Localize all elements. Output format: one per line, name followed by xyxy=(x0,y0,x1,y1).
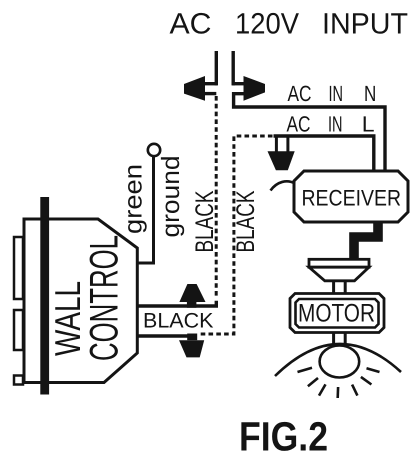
svg-text:120V: 120V xyxy=(235,8,299,41)
antenna wire xyxy=(271,181,296,190)
wall (thick bar) xyxy=(40,197,49,395)
wall control box xyxy=(24,219,137,383)
canopy trapezoid xyxy=(309,267,369,281)
svg-text:N: N xyxy=(364,81,376,106)
thick wire receiver to canopy xyxy=(354,221,378,260)
svg-text:RECEIVER: RECEIVER xyxy=(302,186,402,211)
light ray 4 xyxy=(336,387,339,398)
light bulb xyxy=(320,346,360,378)
dashed wire BLACK (right, from AC IN L down) xyxy=(198,136,273,334)
motor box inner xyxy=(296,299,379,328)
svg-text:AC: AC xyxy=(288,81,312,106)
light ray 7 xyxy=(367,368,380,372)
svg-text:IN: IN xyxy=(329,81,344,106)
motor box outer xyxy=(290,294,384,333)
ground terminal circle xyxy=(148,144,160,156)
stub arrow-left to dashed wire xyxy=(205,92,217,95)
wire BLACK lower (wall control, short) xyxy=(137,334,191,337)
receiver box U1 xyxy=(294,171,408,222)
light shade arc xyxy=(275,344,401,376)
svg-text:BLACK: BLACK xyxy=(232,191,260,253)
arrow down at junction: stem xyxy=(187,334,197,341)
light ray 6 xyxy=(361,377,372,385)
svg-text:INPUT: INPUT xyxy=(322,8,408,41)
svg-text:AC: AC xyxy=(287,112,311,137)
light ray 5 xyxy=(352,385,357,396)
canopy top bar xyxy=(309,259,369,267)
light ray 2 xyxy=(308,378,318,386)
svg-text:green: green xyxy=(120,164,148,234)
arrow down into receiver: stem left line xyxy=(275,137,278,152)
svg-text:BLACK: BLACK xyxy=(191,191,219,253)
light ray 3 xyxy=(319,384,326,395)
svg-text:MOTOR: MOTOR xyxy=(298,300,375,328)
dashed wire BLACK (left, from left blade down) xyxy=(215,96,218,299)
svg-text:AC: AC xyxy=(170,8,212,41)
wall control mounting tab upper xyxy=(14,237,23,299)
svg-text:CONTROL: CONTROL xyxy=(83,235,127,361)
downrod canopy-to-motor xyxy=(334,281,346,294)
arrow down into receiver: stem right line xyxy=(286,137,289,152)
wire AC IN N (from right blade to receiver) xyxy=(234,94,385,172)
arrow up at junction xyxy=(179,284,205,308)
svg-text:FIG.2: FIG.2 xyxy=(239,414,328,454)
svg-text:L: L xyxy=(362,112,375,137)
wire BLACK upper (wall control to junction) xyxy=(137,301,216,306)
wall control mounting tab lower xyxy=(14,310,23,350)
stub prong-right to arrow xyxy=(232,82,244,85)
arrow down at junction: head xyxy=(179,340,204,357)
arrow right (plug blade) xyxy=(244,76,266,101)
svg-text:BLACK: BLACK xyxy=(143,310,214,333)
svg-text:IN: IN xyxy=(328,112,343,137)
arrow left (plug blade) xyxy=(184,76,205,101)
arrow down into receiver: head xyxy=(268,151,295,170)
plug prong left xyxy=(215,51,218,85)
light ray 1 xyxy=(298,368,313,372)
wire AC IN L (solid part to receiver) xyxy=(274,136,374,172)
stub prong-left to arrow xyxy=(205,82,218,85)
svg-text:ground: ground xyxy=(157,156,185,238)
plug prong right xyxy=(231,51,234,85)
wall control foot xyxy=(14,376,23,385)
downrod motor-to-bulb xyxy=(334,333,346,347)
green ground wire xyxy=(137,156,154,263)
